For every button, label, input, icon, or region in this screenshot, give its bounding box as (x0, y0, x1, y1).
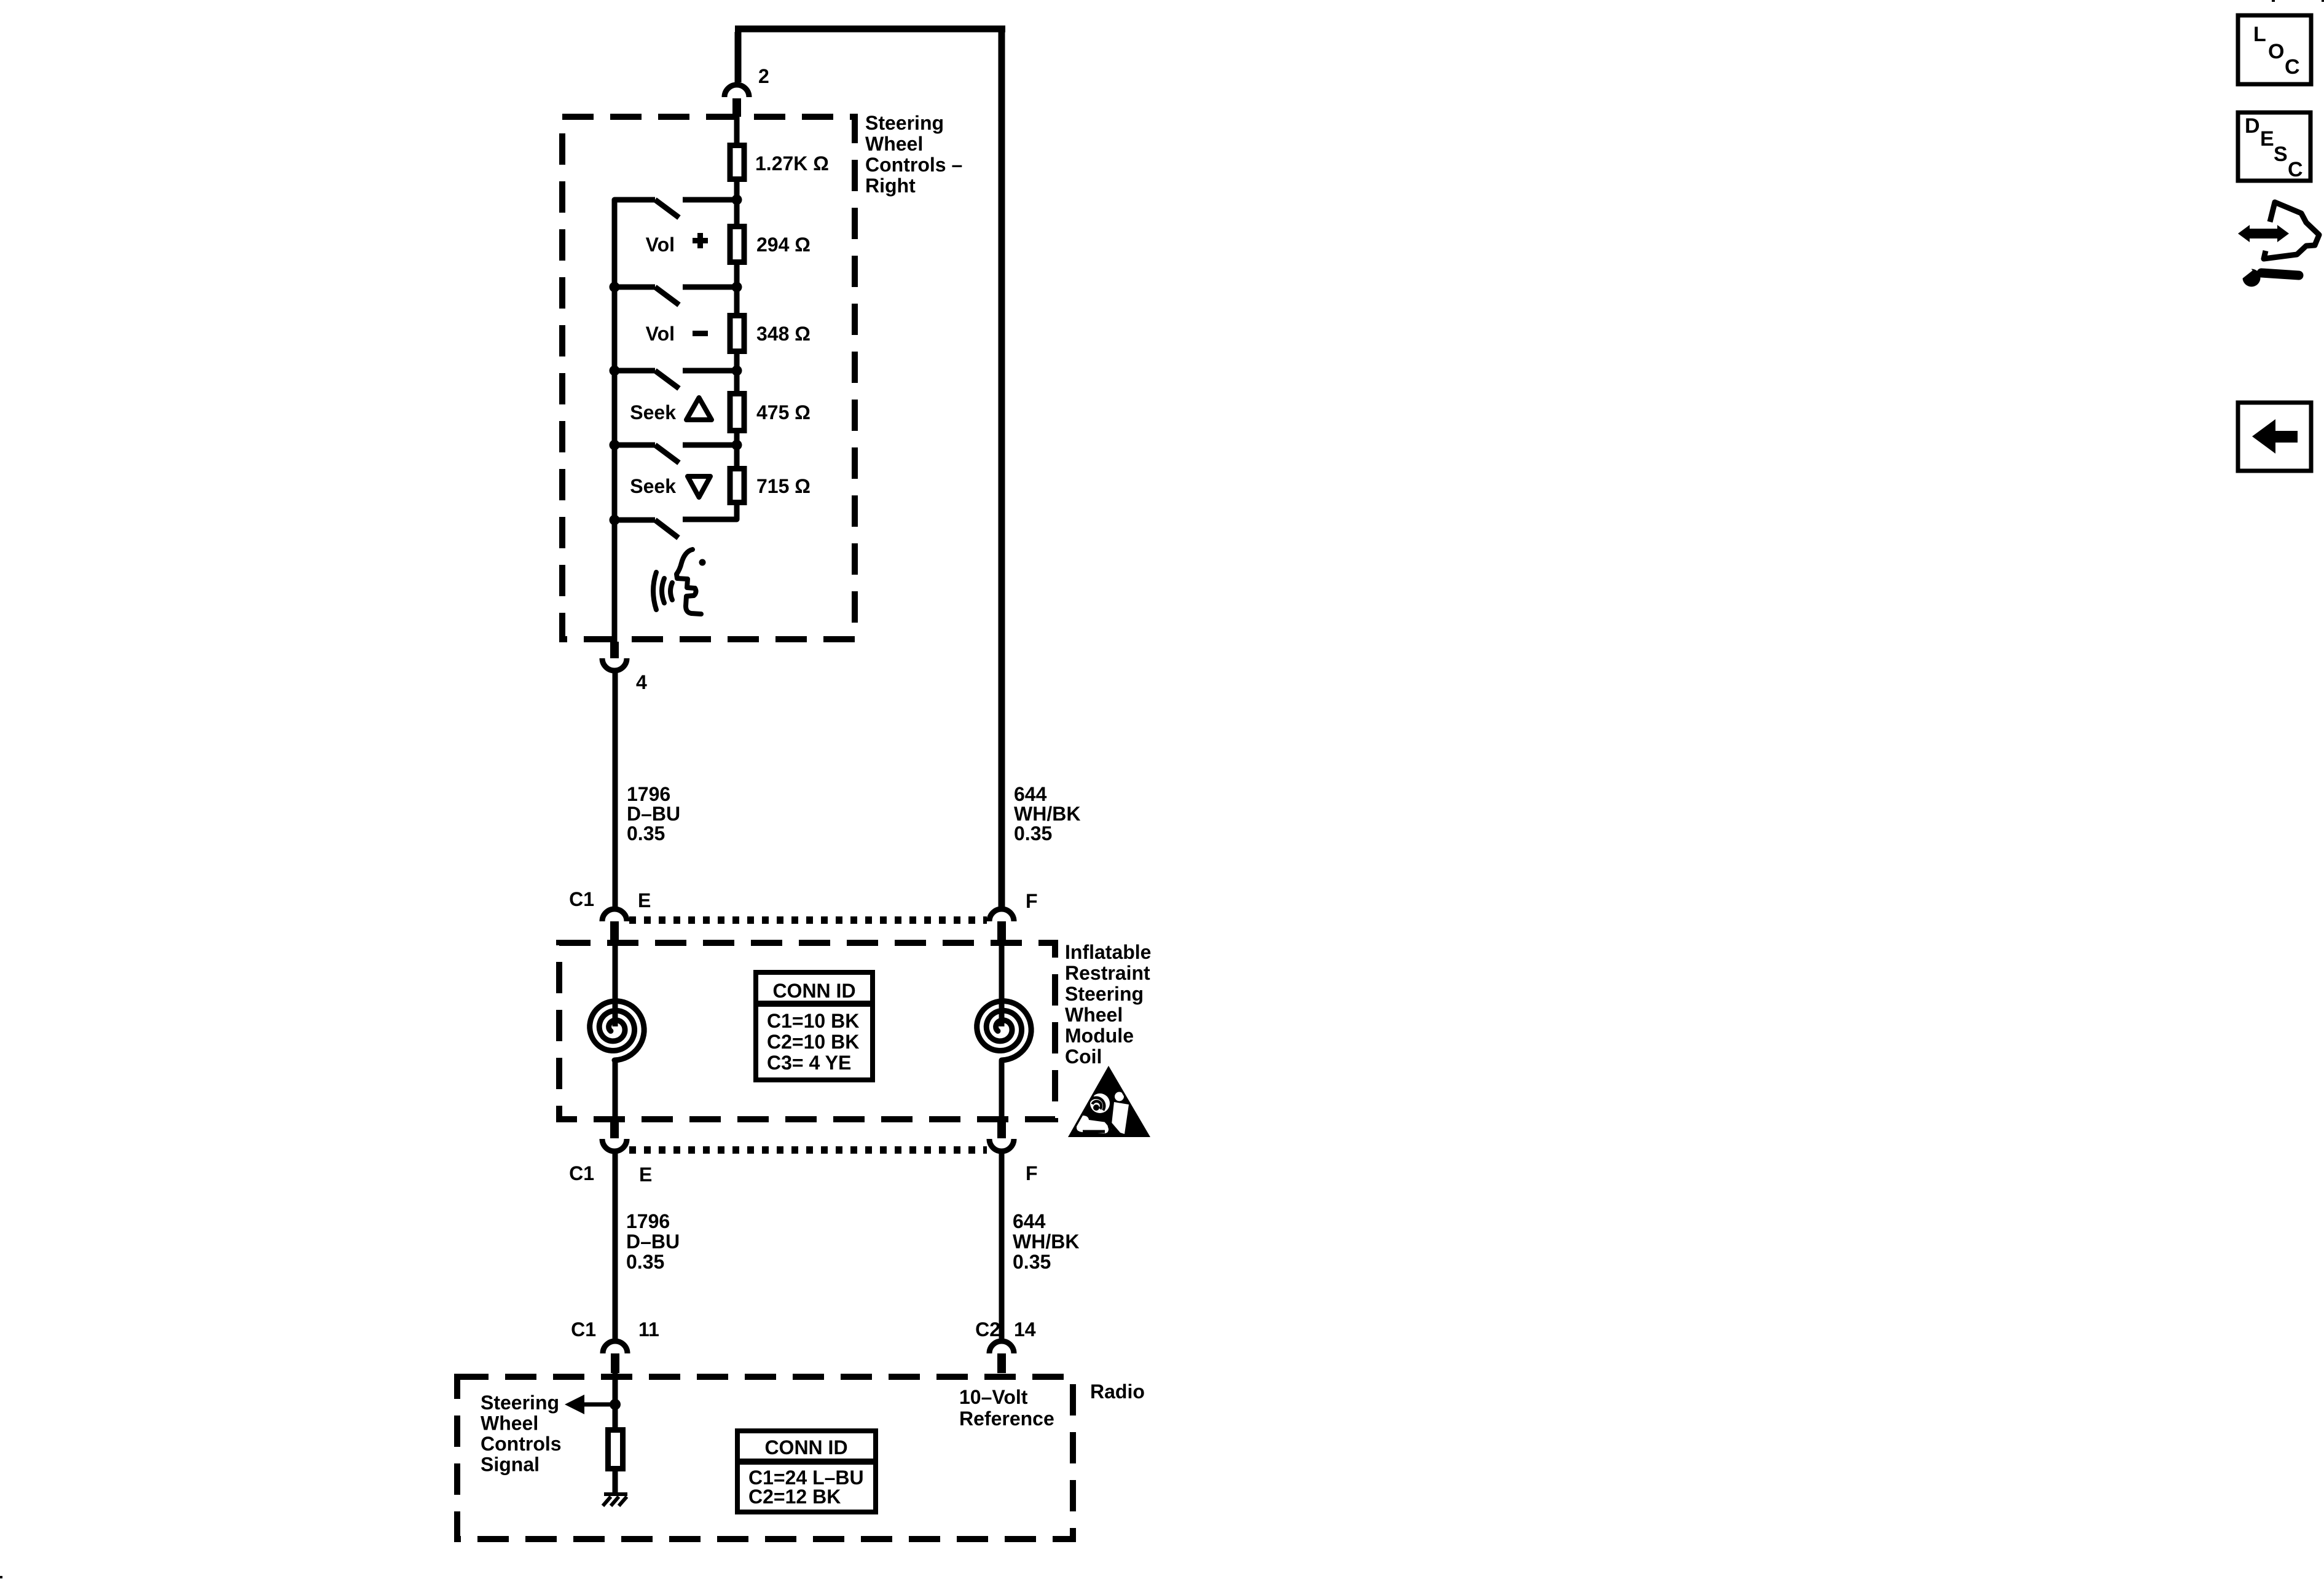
svg-text:0.35: 0.35 (626, 1251, 664, 1273)
svg-text:4: 4 (636, 671, 647, 693)
svg-text:Wheel: Wheel (1065, 1004, 1123, 1026)
svg-text:Controls –: Controls – (865, 154, 962, 176)
svg-text:1796: 1796 (626, 1210, 670, 1232)
svg-text:D–BU: D–BU (627, 803, 680, 825)
svg-text:C1: C1 (569, 888, 594, 910)
svg-text:C1=10 BK: C1=10 BK (767, 1010, 859, 1032)
svg-text:Inflatable: Inflatable (1065, 941, 1151, 963)
svg-text:C: C (2285, 55, 2300, 79)
svg-text:C1: C1 (569, 1162, 594, 1184)
svg-text:WH/BK: WH/BK (1014, 803, 1080, 825)
svg-text:1.27K Ω: 1.27K Ω (755, 152, 829, 175)
svg-text:475 Ω: 475 Ω (756, 401, 811, 423)
svg-text:Seek: Seek (630, 475, 676, 497)
svg-text:294 Ω: 294 Ω (756, 234, 811, 256)
svg-text:Wheel: Wheel (865, 133, 923, 155)
svg-text:E: E (638, 889, 651, 912)
svg-text:Wheel: Wheel (481, 1412, 538, 1435)
svg-text:2: 2 (758, 65, 769, 87)
svg-text:D: D (2245, 114, 2260, 138)
svg-text:D–BU: D–BU (626, 1231, 680, 1253)
svg-text:CONN ID: CONN ID (764, 1436, 847, 1459)
svg-text:Radio: Radio (1090, 1380, 1145, 1403)
svg-text:Vol: Vol (646, 234, 675, 256)
svg-text:L: L (2253, 23, 2266, 46)
svg-text:Steering: Steering (1065, 983, 1144, 1005)
svg-text:715 Ω: 715 Ω (756, 475, 811, 497)
svg-text:1796: 1796 (627, 783, 670, 805)
svg-text:14: 14 (1014, 1318, 1036, 1341)
svg-text:F: F (1026, 890, 1038, 912)
svg-text:Steering: Steering (481, 1392, 559, 1414)
svg-text:S: S (2274, 143, 2288, 166)
svg-text:CONN ID: CONN ID (772, 980, 855, 1002)
svg-text:O: O (2268, 40, 2284, 63)
svg-text:644: 644 (1013, 1210, 1046, 1232)
svg-text:Reference: Reference (959, 1408, 1054, 1430)
svg-text:Steering: Steering (865, 112, 944, 134)
svg-text:10–Volt: 10–Volt (959, 1386, 1028, 1408)
svg-text:644: 644 (1014, 783, 1047, 805)
svg-text:Module: Module (1065, 1025, 1134, 1047)
svg-text:WH/BK: WH/BK (1013, 1231, 1079, 1253)
svg-text:C1: C1 (571, 1318, 596, 1341)
svg-text:348 Ω: 348 Ω (756, 323, 811, 345)
svg-text:F: F (1026, 1162, 1038, 1184)
svg-text:Vol: Vol (646, 323, 675, 345)
svg-text:C2: C2 (975, 1318, 1000, 1341)
svg-text:C2=10 BK: C2=10 BK (767, 1031, 859, 1053)
svg-text:0.35: 0.35 (1013, 1251, 1051, 1273)
svg-text:C: C (2288, 158, 2303, 181)
svg-text:Seek: Seek (630, 401, 676, 423)
svg-text:11: 11 (638, 1318, 659, 1341)
svg-text:C2=12 BK: C2=12 BK (748, 1486, 841, 1508)
svg-text:Signal: Signal (481, 1454, 540, 1476)
svg-text:Restraint: Restraint (1065, 962, 1150, 984)
svg-text:E: E (639, 1164, 652, 1186)
svg-text:C3= 4 YE: C3= 4 YE (767, 1052, 851, 1074)
svg-text:0.35: 0.35 (627, 822, 665, 845)
svg-text:E: E (2260, 127, 2274, 151)
svg-text:0.35: 0.35 (1014, 822, 1052, 845)
svg-text:Coil: Coil (1065, 1045, 1102, 1068)
svg-text:Right: Right (865, 175, 916, 197)
svg-text:Controls: Controls (481, 1433, 562, 1455)
